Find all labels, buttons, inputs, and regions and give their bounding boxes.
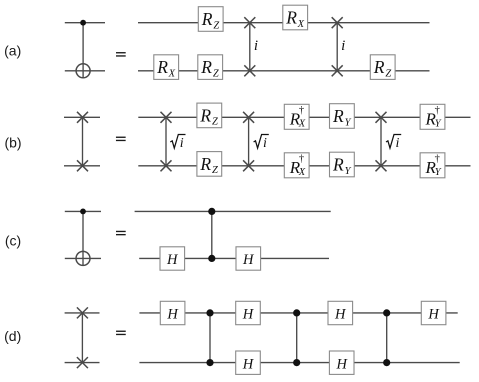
svg-text:i: i bbox=[180, 136, 184, 151]
svg-text:(d): (d) bbox=[4, 328, 21, 344]
svg-text:i: i bbox=[263, 136, 267, 151]
svg-text:X: X bbox=[298, 167, 306, 178]
svg-text:H: H bbox=[427, 307, 440, 323]
svg-text:X: X bbox=[298, 119, 306, 130]
svg-text:H: H bbox=[166, 307, 179, 323]
svg-text:†: † bbox=[435, 105, 440, 116]
svg-text:H: H bbox=[335, 356, 348, 372]
svg-text:Z: Z bbox=[213, 68, 219, 79]
svg-text:(b): (b) bbox=[4, 135, 21, 151]
svg-text:Z: Z bbox=[212, 165, 218, 176]
svg-text:i: i bbox=[395, 136, 399, 151]
svg-text:Z: Z bbox=[385, 68, 391, 79]
svg-text:R: R bbox=[285, 8, 297, 28]
svg-text:R: R bbox=[199, 105, 211, 125]
svg-text:R: R bbox=[332, 106, 344, 126]
svg-text:R: R bbox=[332, 155, 344, 175]
svg-text:†: † bbox=[435, 154, 440, 165]
svg-text:X: X bbox=[168, 68, 176, 79]
svg-text:R: R bbox=[373, 57, 385, 77]
svg-text:H: H bbox=[334, 307, 347, 323]
svg-text:i: i bbox=[341, 38, 345, 54]
svg-text:H: H bbox=[242, 356, 255, 372]
svg-text:R: R bbox=[200, 57, 212, 77]
svg-text:Z: Z bbox=[213, 20, 219, 31]
svg-text:H: H bbox=[242, 307, 255, 323]
svg-text:(a): (a) bbox=[4, 43, 21, 59]
svg-text:R: R bbox=[201, 9, 213, 29]
svg-text:Z: Z bbox=[212, 117, 218, 128]
svg-text:H: H bbox=[166, 252, 179, 268]
svg-text:X: X bbox=[297, 19, 305, 30]
svg-text:i: i bbox=[254, 38, 258, 54]
svg-text:(c): (c) bbox=[5, 232, 21, 248]
svg-text:R: R bbox=[156, 57, 168, 77]
svg-text:†: † bbox=[299, 105, 304, 116]
svg-text:H: H bbox=[242, 252, 255, 268]
svg-text:R: R bbox=[199, 154, 211, 174]
svg-text:†: † bbox=[299, 154, 304, 165]
